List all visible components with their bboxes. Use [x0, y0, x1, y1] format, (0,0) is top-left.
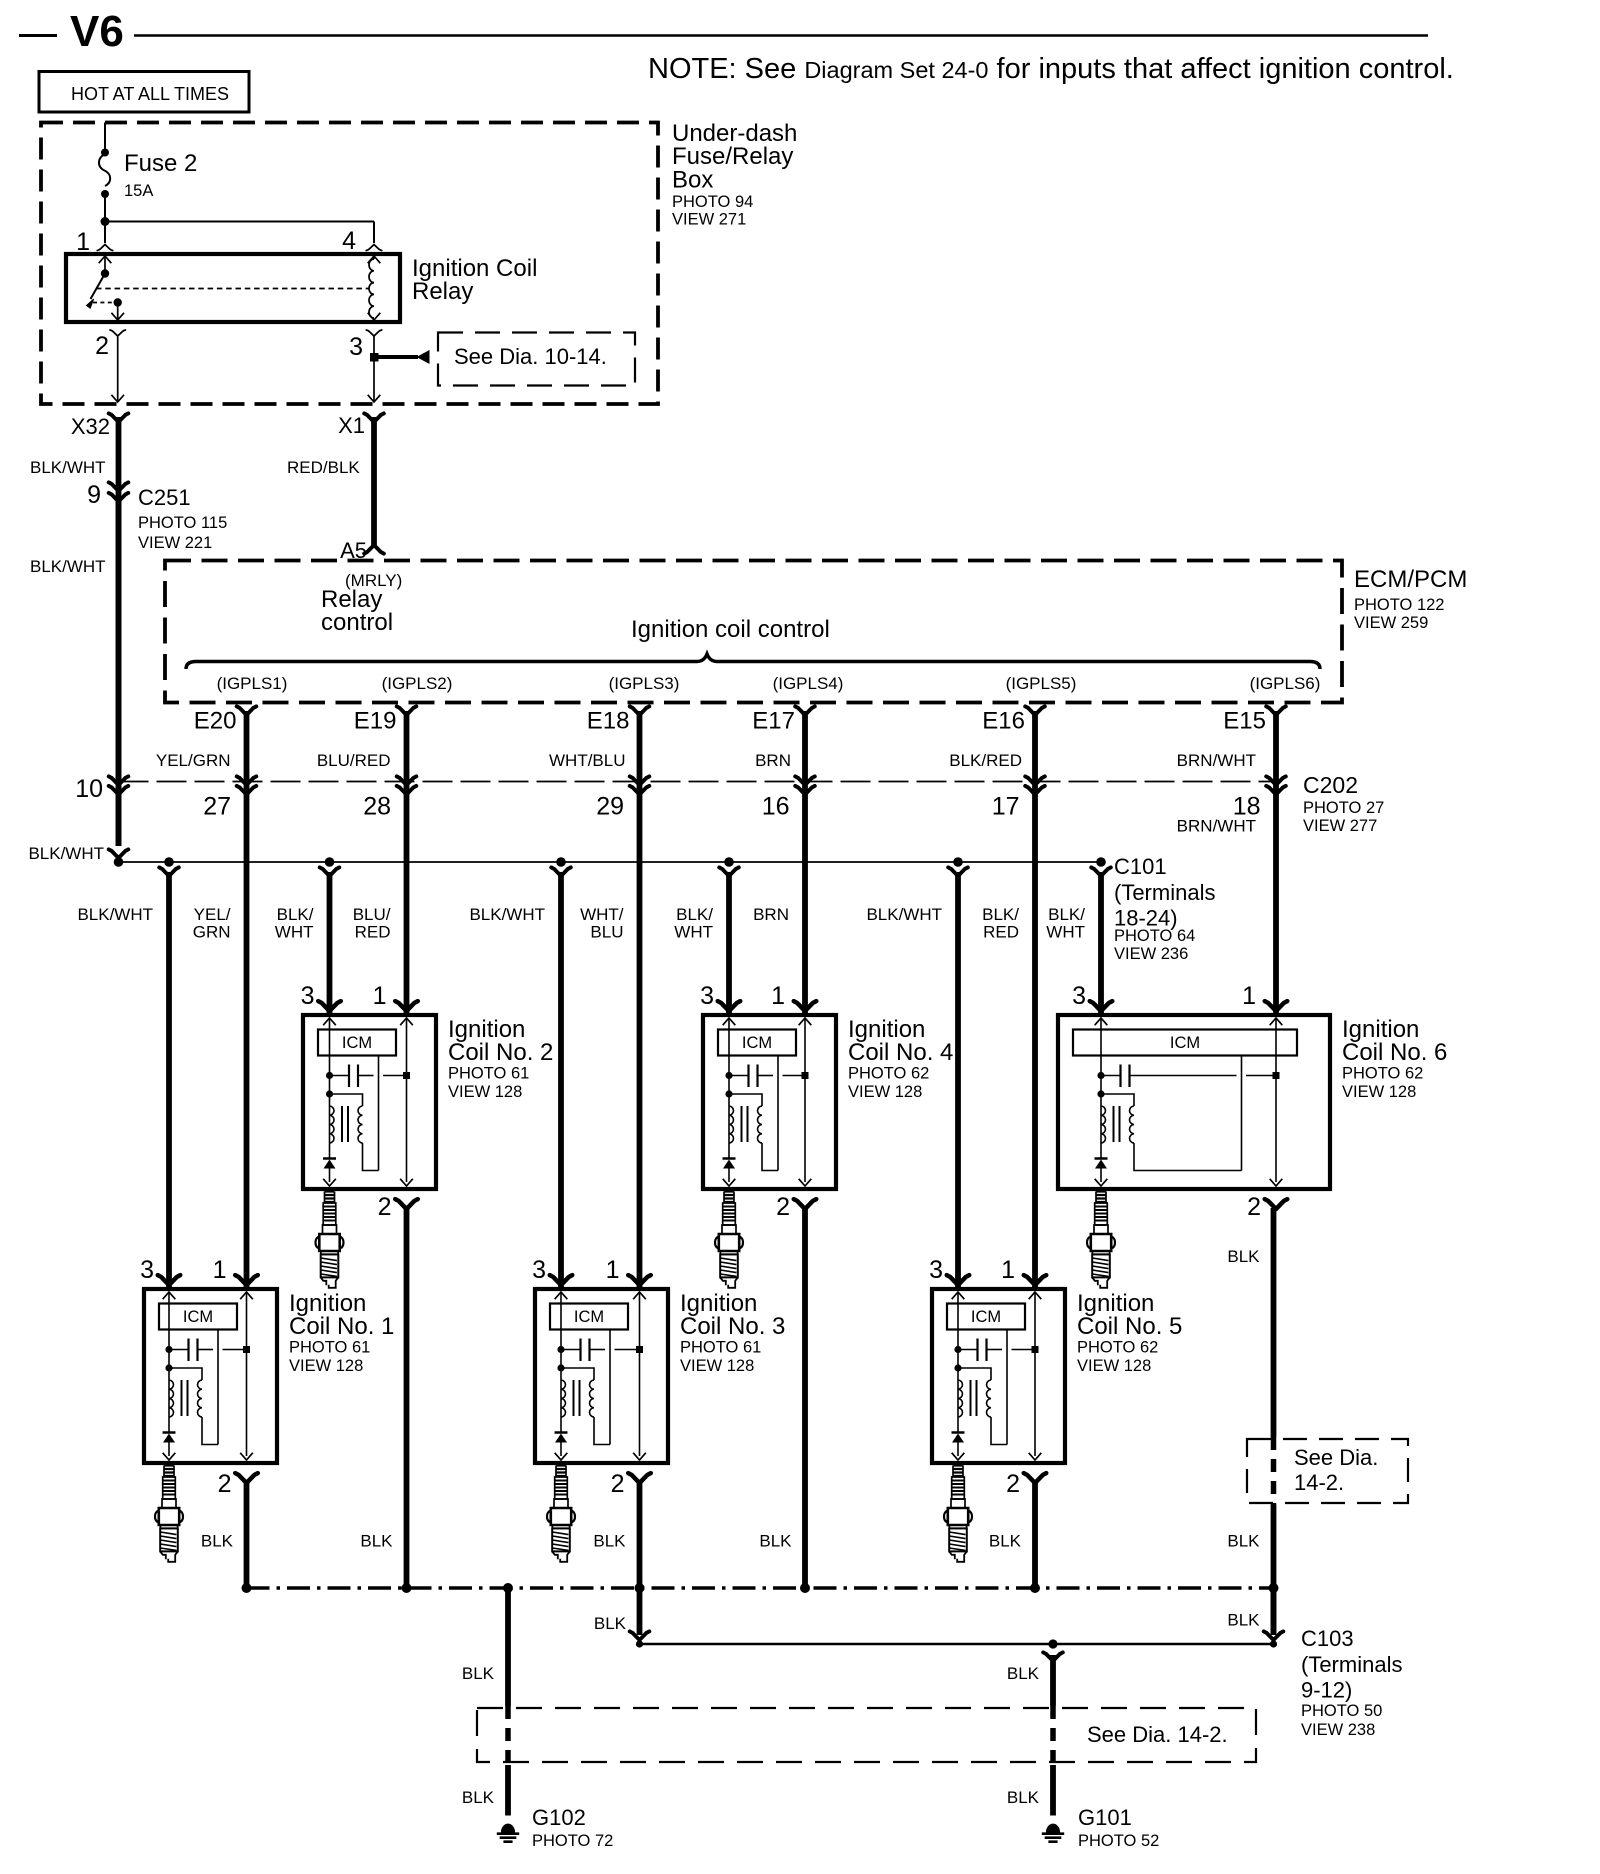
svg-text:3: 3	[700, 982, 714, 1010]
svg-text:PHOTO 94: PHOTO 94	[672, 193, 753, 211]
svg-text:NOTE: See Diagram Set 24-0 for: NOTE: See Diagram Set 24-0 for inputs th…	[648, 53, 1454, 85]
svg-text:C103: C103	[1301, 1626, 1354, 1651]
label C202 PHOTO 27 VIEW 277	[1303, 772, 1384, 835]
svg-text:16: 16	[762, 793, 790, 821]
svg-text:PHOTO 115: PHOTO 115	[138, 514, 227, 532]
internal wire pin3 side coil 6	[1095, 1018, 1108, 1158]
terminal pin 3 coil 6	[1090, 1001, 1113, 1011]
wire junction to relay pin 4	[105, 222, 374, 244]
wire X32 end terminal	[109, 849, 129, 858]
spark plug of coil 4	[715, 1192, 743, 1288]
spark plug of coil 5	[944, 1466, 972, 1562]
terminal pin 3 coil 5	[947, 1275, 970, 1285]
svg-text:RED: RED	[983, 923, 1019, 942]
terminal pin 1 coil 3	[628, 1275, 651, 1285]
label ECM/PCM PHOTO 122 VIEW 259	[1354, 566, 1467, 632]
spark plug of coil 3	[547, 1466, 575, 1562]
svg-text:BLU/: BLU/	[353, 905, 391, 924]
svg-text:2: 2	[1247, 1193, 1261, 1221]
wire X1 RED/BLK	[371, 417, 377, 546]
label C101 (Terminals 18-24) PHOTO 64 VIEW 236	[1114, 854, 1215, 963]
svg-text:BLK: BLK	[1227, 1247, 1260, 1266]
svg-text:BLK: BLK	[593, 1532, 626, 1551]
connector C251	[87, 481, 128, 509]
svg-text:2: 2	[378, 1193, 392, 1221]
svg-text:(IGPLS6): (IGPLS6)	[1250, 674, 1321, 693]
diode of coil 3	[555, 1433, 568, 1461]
svg-text:1: 1	[76, 228, 90, 256]
svg-text:BLK/WHT: BLK/WHT	[469, 905, 545, 924]
svg-text:Coil No. 1: Coil No. 1	[289, 1313, 394, 1340]
label MRLY Relay control	[321, 571, 402, 636]
relay K1 Ignition Coil Relay box	[66, 254, 400, 322]
wire BLK/WHT stub at x=729	[719, 867, 739, 1015]
connector C103 wire	[640, 1643, 1274, 1645]
pin E15	[1223, 706, 1286, 734]
svg-text:GRN: GRN	[193, 923, 231, 942]
internal wire pin1 side coil 1	[240, 1292, 253, 1460]
terminal pin 1 coil 6	[1265, 1001, 1288, 1011]
svg-text:Coil No. 2: Coil No. 2	[448, 1039, 553, 1066]
label wire colour at x=958	[866, 905, 942, 924]
svg-text:BLK/: BLK/	[1048, 905, 1085, 924]
capacitor of coil 6	[1097, 1065, 1279, 1088]
svg-text:Coil No. 5: Coil No. 5	[1077, 1313, 1182, 1340]
diode of coil 6	[1095, 1159, 1108, 1187]
svg-text:X1: X1	[338, 413, 365, 438]
svg-text:29: 29	[596, 793, 624, 821]
label wire colour at x=169	[77, 905, 153, 924]
svg-text:E16: E16	[982, 708, 1025, 735]
internal wire pin3 side coil 5	[952, 1292, 965, 1432]
ICM module of coil 2	[318, 1030, 396, 1056]
node ground bus junction x=406.5	[402, 1583, 412, 1593]
svg-text:(Terminals: (Terminals	[1114, 880, 1215, 905]
svg-text:Fuse 2: Fuse 2	[124, 150, 197, 177]
node C101 junction at x=329.5	[325, 857, 335, 867]
see dia 10-14 box	[438, 333, 635, 386]
label wire colour at x=729	[674, 905, 713, 942]
svg-text:VIEW 128: VIEW 128	[680, 1357, 754, 1375]
wire coil6 pin2 BLK	[1271, 1208, 1277, 1634]
node C101 junction at x=561	[556, 857, 566, 867]
wire E16	[1032, 711, 1038, 1289]
wire fuse to relay pin 1	[104, 222, 106, 244]
relay actuation dashed link	[96, 288, 369, 290]
svg-text:2: 2	[611, 1470, 625, 1498]
diode of coil 1	[163, 1433, 176, 1461]
pin E19	[354, 706, 417, 734]
label Ignition Coil No. 3 PHOTO 61 VIEW 128	[680, 1290, 785, 1375]
connector C202 terminal at x=805	[795, 776, 815, 794]
svg-text:1: 1	[1001, 1256, 1015, 1284]
svg-text:4: 4	[342, 227, 356, 255]
svg-text:3: 3	[1072, 982, 1086, 1010]
svg-text:Box: Box	[672, 167, 713, 194]
terminal pin 3 coil 2	[318, 1001, 341, 1011]
svg-text:PHOTO 62: PHOTO 62	[848, 1065, 929, 1083]
ICM module of coil 1	[159, 1304, 237, 1330]
svg-text:PHOTO 62: PHOTO 62	[1342, 1065, 1423, 1083]
svg-text:BLK/WHT: BLK/WHT	[77, 905, 153, 924]
pin E18	[587, 706, 650, 734]
diode of coil 2	[323, 1159, 336, 1187]
label wire colour at x=1101	[1046, 905, 1085, 942]
node ground bus junction x=508	[503, 1583, 513, 1593]
pin 2	[95, 330, 125, 360]
svg-text:PHOTO 72: PHOTO 72	[532, 1832, 613, 1850]
label HOT AT ALL TIMES	[39, 72, 249, 113]
node C103 right	[1270, 1640, 1277, 1647]
label C103 (Terminals 9-12) PHOTO 50 VIEW 238	[1301, 1626, 1402, 1739]
internal wire pin3 side coil 1	[163, 1292, 176, 1432]
terminal pin 1 coil 2	[395, 1001, 418, 1011]
svg-text:28: 28	[363, 793, 391, 821]
terminal pin 2 coil 6	[1265, 1199, 1288, 1209]
svg-text:VIEW 128: VIEW 128	[848, 1083, 922, 1101]
svg-text:RED/BLK: RED/BLK	[287, 458, 360, 477]
node bus left end	[114, 857, 124, 867]
label wire colour at x=805	[753, 905, 789, 924]
terminal pin 2 coil 1	[235, 1473, 258, 1483]
see dia 14-2 box right	[1247, 1439, 1408, 1503]
wire E18	[637, 711, 643, 1289]
pin E16	[982, 706, 1045, 734]
svg-text:(IGPLS4): (IGPLS4)	[773, 674, 844, 693]
svg-text:BLK: BLK	[360, 1532, 393, 1551]
svg-text:BLK: BLK	[1007, 1664, 1040, 1683]
label wire colour at x=561	[469, 905, 545, 924]
svg-text:Coil No. 4: Coil No. 4	[848, 1039, 953, 1066]
ICM stem wire of coil 1	[217, 1330, 219, 1445]
node ground bus junction x=805	[800, 1583, 810, 1593]
svg-text:3: 3	[532, 1256, 546, 1284]
wire coil3 pin2 BLK	[637, 1482, 643, 1588]
wire coil3 pin2 to C103	[630, 1588, 650, 1640]
capacitor of coil 3	[557, 1339, 643, 1362]
svg-text:E18: E18	[587, 708, 630, 735]
svg-text:VIEW 236: VIEW 236	[1114, 945, 1188, 963]
svg-text:See Dia.: See Dia.	[1294, 1445, 1378, 1470]
transformer windings of coil 4	[725, 1090, 778, 1170]
diode of coil 4	[723, 1159, 736, 1187]
label C251 PHOTO 115 VIEW 221	[138, 485, 227, 552]
svg-text:YEL/GRN: YEL/GRN	[156, 751, 231, 770]
node C101 junction at x=958	[953, 857, 963, 867]
ICM stem wire of coil 4	[777, 1056, 779, 1171]
wire E19	[404, 711, 410, 1015]
label wire colour at x=1035	[982, 905, 1019, 942]
node C103 left	[636, 1640, 643, 1647]
svg-text:1: 1	[771, 982, 785, 1010]
wire battery feed to fuse	[104, 123, 106, 153]
svg-text:3: 3	[349, 333, 363, 361]
svg-text:Ignition coil control: Ignition coil control	[631, 616, 830, 643]
svg-text:PHOTO 64: PHOTO 64	[1114, 927, 1195, 945]
terminal pin 1 coil 5	[1024, 1275, 1047, 1285]
pin E17	[752, 706, 815, 734]
ICM stem wire of coil 6	[1241, 1056, 1243, 1171]
svg-text:E20: E20	[194, 708, 237, 735]
svg-text:PHOTO 122: PHOTO 122	[1354, 596, 1444, 614]
svg-text:Relay: Relay	[412, 278, 473, 305]
internal wire pin1 side coil 4	[799, 1018, 812, 1186]
ICM module of coil 3	[550, 1304, 628, 1330]
svg-text:WHT: WHT	[275, 923, 314, 942]
svg-text:BLK: BLK	[1007, 1788, 1040, 1807]
svg-text:BLK/RED: BLK/RED	[949, 751, 1022, 770]
svg-text:BLK/WHT: BLK/WHT	[30, 557, 106, 576]
svg-text:E15: E15	[1223, 708, 1266, 735]
svg-text:PHOTO 61: PHOTO 61	[680, 1339, 761, 1357]
wire BLK/WHT stub at x=561	[551, 867, 571, 1289]
svg-text:VIEW 128: VIEW 128	[1342, 1083, 1416, 1101]
spark plug of coil 1	[155, 1466, 183, 1562]
svg-text:17: 17	[992, 793, 1020, 821]
fuse F2 Fuse 2 15A	[99, 149, 110, 222]
brace ignition coil control	[186, 654, 1320, 669]
svg-text:WHT: WHT	[1046, 923, 1085, 942]
svg-text:ICM: ICM	[574, 1308, 604, 1326]
ground bus dash-dot wire	[247, 1586, 1274, 1589]
relay coil winding	[368, 256, 381, 320]
wire coil5 pin2 BLK	[1032, 1482, 1038, 1588]
svg-text:WHT/: WHT/	[580, 905, 624, 924]
svg-text:BLK: BLK	[462, 1664, 495, 1683]
terminal pin 1 coil 4	[794, 1001, 817, 1011]
svg-text:15A: 15A	[124, 182, 153, 200]
pin E20	[194, 706, 257, 734]
internal wire pin1 side coil 3	[633, 1292, 646, 1460]
svg-text:PHOTO 50: PHOTO 50	[1301, 1702, 1382, 1720]
label Ignition Coil Relay	[412, 255, 537, 305]
svg-text:BLK: BLK	[462, 1788, 495, 1807]
internal wire pin3 side coil 4	[723, 1018, 736, 1158]
terminal pin 3 coil 4	[718, 1001, 741, 1011]
svg-text:PHOTO 61: PHOTO 61	[289, 1339, 370, 1357]
svg-text:BLK: BLK	[201, 1532, 234, 1551]
connector C202 terminal at x=246.5	[237, 776, 257, 794]
wire coil2 pin2 BLK	[404, 1208, 410, 1588]
connector C202 terminal at x=1035	[1025, 776, 1045, 794]
svg-text:2: 2	[95, 332, 109, 360]
svg-text:(IGPLS1): (IGPLS1)	[217, 674, 288, 693]
pin 4	[342, 227, 382, 255]
svg-text:BRN: BRN	[753, 905, 789, 924]
internal wire pin1 side coil 6	[1270, 1018, 1283, 1186]
svg-text:C202: C202	[1303, 772, 1358, 798]
svg-text:BLK/: BLK/	[277, 905, 314, 924]
ignition coil no. 6 box	[1058, 1015, 1330, 1189]
svg-text:RED: RED	[355, 923, 391, 942]
svg-text:E17: E17	[752, 708, 795, 735]
wire coil1 pin2 BLK	[244, 1482, 250, 1588]
ignition coil no. 1 box	[144, 1289, 277, 1463]
wire X32 BLK/WHT	[116, 417, 122, 846]
transformer windings of coil 3	[557, 1364, 610, 1444]
transformer windings of coil 1	[165, 1364, 218, 1444]
svg-text:BLK: BLK	[594, 1614, 627, 1633]
svg-text:14-2.: 14-2.	[1294, 1470, 1344, 1495]
node pin3 branch	[370, 353, 379, 362]
svg-text:VIEW 277: VIEW 277	[1303, 817, 1377, 835]
svg-text:BLK: BLK	[1227, 1532, 1260, 1551]
node X1	[338, 413, 384, 438]
label wire colour at x=246.5	[193, 905, 231, 942]
internal wire pin3 side coil 2	[323, 1018, 336, 1158]
node fuse output junction	[101, 217, 110, 226]
ground G102	[497, 1824, 519, 1842]
relay contact switch	[87, 256, 125, 320]
svg-text:control: control	[321, 609, 393, 636]
svg-text:9-12): 9-12)	[1301, 1678, 1352, 1703]
svg-text:PHOTO 61: PHOTO 61	[448, 1065, 529, 1083]
ICM module of coil 4	[718, 1030, 796, 1056]
capacitor of coil 1	[165, 1339, 250, 1362]
svg-text:9: 9	[87, 481, 101, 509]
svg-text:V6: V6	[70, 7, 124, 56]
svg-text:1: 1	[213, 1256, 227, 1284]
svg-text:Coil No. 6: Coil No. 6	[1342, 1039, 1447, 1066]
label Ignition Coil No. 5 PHOTO 62 VIEW 128	[1077, 1290, 1182, 1375]
svg-text:BRN: BRN	[755, 751, 791, 770]
wire relay pin 2 to X32	[111, 336, 124, 402]
internal wire pin3 side coil 3	[555, 1292, 568, 1432]
svg-text:BLU/RED: BLU/RED	[317, 751, 391, 770]
internal wire pin1 side coil 2	[400, 1018, 413, 1186]
node C101 junction at x=1101	[1096, 857, 1106, 867]
svg-text:HOT AT ALL TIMES: HOT AT ALL TIMES	[71, 84, 229, 104]
label Ignition Coil No. 1 PHOTO 61 VIEW 128	[289, 1290, 394, 1375]
svg-text:2: 2	[776, 1193, 790, 1221]
svg-text:Coil No. 3: Coil No. 3	[680, 1313, 785, 1340]
arrow to See Dia. 10-14.	[374, 350, 430, 364]
label wire colour at x=639.5	[580, 905, 624, 942]
svg-text:(Terminals: (Terminals	[1301, 1652, 1402, 1677]
ignition coil no. 2 box	[303, 1015, 436, 1189]
label G102 PHOTO 72	[532, 1805, 613, 1850]
node C101 junction at x=729	[724, 857, 734, 867]
connector C202 terminal at x=639.5	[630, 776, 650, 794]
wire C251 to C101 BLK/WHT	[116, 497, 122, 846]
wire BLK/WHT stub at x=958	[948, 867, 968, 1289]
terminal pin 3 coil 3	[550, 1275, 573, 1285]
svg-text:(IGPLS3): (IGPLS3)	[609, 674, 680, 693]
svg-text:G102: G102	[532, 1805, 586, 1830]
svg-text:ICM: ICM	[342, 1034, 372, 1052]
svg-text:VIEW 221: VIEW 221	[138, 534, 212, 552]
svg-text:VIEW 238: VIEW 238	[1301, 1721, 1375, 1739]
svg-text:BLU: BLU	[590, 923, 623, 942]
label wire colour at x=329.5	[275, 905, 314, 942]
svg-text:PHOTO 52: PHOTO 52	[1078, 1832, 1159, 1850]
svg-text:ICM: ICM	[742, 1034, 772, 1052]
svg-text:BLK/WHT: BLK/WHT	[28, 844, 104, 863]
svg-text:VIEW 128: VIEW 128	[1077, 1357, 1151, 1375]
transformer windings of coil 2	[326, 1090, 379, 1170]
ignition coil no. 4 box	[703, 1015, 836, 1189]
svg-text:VIEW 271: VIEW 271	[672, 211, 746, 229]
svg-text:PHOTO 62: PHOTO 62	[1077, 1339, 1158, 1357]
ignition coil no. 5 box	[932, 1289, 1065, 1463]
node X32	[71, 413, 128, 439]
svg-text:BRN/WHT: BRN/WHT	[1177, 751, 1256, 770]
svg-text:WHT/BLU: WHT/BLU	[549, 751, 626, 770]
ICM stem wire of coil 2	[378, 1056, 380, 1171]
ignition coil no. 3 box	[535, 1289, 668, 1463]
label G101 PHOTO 52	[1078, 1805, 1159, 1850]
svg-text:ICM: ICM	[183, 1308, 213, 1326]
title V6	[19, 7, 124, 56]
transformer windings of coil 5	[954, 1364, 1007, 1444]
capacitor of coil 4	[725, 1065, 808, 1088]
wire to G101 BLK	[1043, 1652, 1063, 1815]
svg-text:See Dia. 14-2.: See Dia. 14-2.	[1087, 1722, 1228, 1747]
under-dash fuse/relay box	[41, 123, 658, 405]
terminal pin 2 coil 5	[1024, 1473, 1047, 1483]
svg-text:VIEW 259: VIEW 259	[1354, 614, 1428, 632]
svg-text:3: 3	[301, 982, 315, 1010]
top rule	[134, 34, 1428, 37]
capacitor of coil 2	[326, 1065, 410, 1088]
svg-text:(IGPLS2): (IGPLS2)	[382, 674, 453, 693]
svg-text:1: 1	[373, 982, 387, 1010]
svg-text:BLK: BLK	[1227, 1611, 1260, 1630]
label Under-dash Fuse/Relay Box PHOTO 94 VIEW 271	[672, 120, 797, 229]
svg-text:BLK/WHT: BLK/WHT	[30, 458, 106, 477]
svg-text:VIEW 128: VIEW 128	[289, 1357, 363, 1375]
svg-text:1: 1	[1242, 982, 1256, 1010]
label Ignition Coil No. 2 PHOTO 61 VIEW 128	[448, 1016, 553, 1101]
svg-text:YEL/: YEL/	[194, 905, 231, 924]
capacitor of coil 5	[954, 1339, 1038, 1362]
svg-text:E19: E19	[354, 708, 397, 735]
terminal pin 2 coil 2	[395, 1199, 418, 1209]
pin 3	[349, 330, 382, 361]
node ground bus junction x=1273.5	[1269, 1583, 1279, 1593]
svg-text:G101: G101	[1078, 1805, 1132, 1830]
node ground bus junction x=639.5	[635, 1583, 645, 1593]
svg-text:BLK: BLK	[989, 1532, 1022, 1551]
connector C101 bus wire	[119, 861, 1102, 863]
internal wire pin1 side coil 5	[1029, 1292, 1042, 1460]
node C101 junction at x=169	[164, 857, 174, 867]
terminal pin 2 coil 3	[628, 1473, 651, 1483]
wire relay pin 3 to X1	[368, 336, 381, 402]
wire BLK/WHT stub at x=1101	[1091, 867, 1111, 1015]
svg-text:BLK/: BLK/	[982, 905, 1019, 924]
svg-text:BLK/: BLK/	[676, 905, 713, 924]
node A5	[340, 538, 384, 563]
svg-text:10: 10	[75, 775, 103, 803]
svg-text:X32: X32	[71, 414, 110, 439]
svg-text:ECM/PCM: ECM/PCM	[1354, 566, 1467, 593]
svg-text:BRN/WHT: BRN/WHT	[1177, 817, 1256, 836]
svg-text:3: 3	[929, 1256, 943, 1284]
svg-text:2: 2	[1006, 1470, 1020, 1498]
svg-text:C251: C251	[138, 485, 191, 510]
pin 1	[76, 228, 113, 256]
svg-text:ICM: ICM	[971, 1308, 1001, 1326]
svg-text:PHOTO 27: PHOTO 27	[1303, 799, 1384, 817]
svg-text:1: 1	[606, 1256, 620, 1284]
wire G102 BLK	[505, 1588, 511, 1816]
wire coil4 pin2 BLK	[802, 1208, 808, 1588]
diode of coil 5	[952, 1433, 965, 1461]
wire BLK/WHT stub at x=329.5	[320, 867, 340, 1015]
spark plug of coil 6	[1087, 1192, 1115, 1288]
svg-text:BLK/WHT: BLK/WHT	[866, 905, 942, 924]
